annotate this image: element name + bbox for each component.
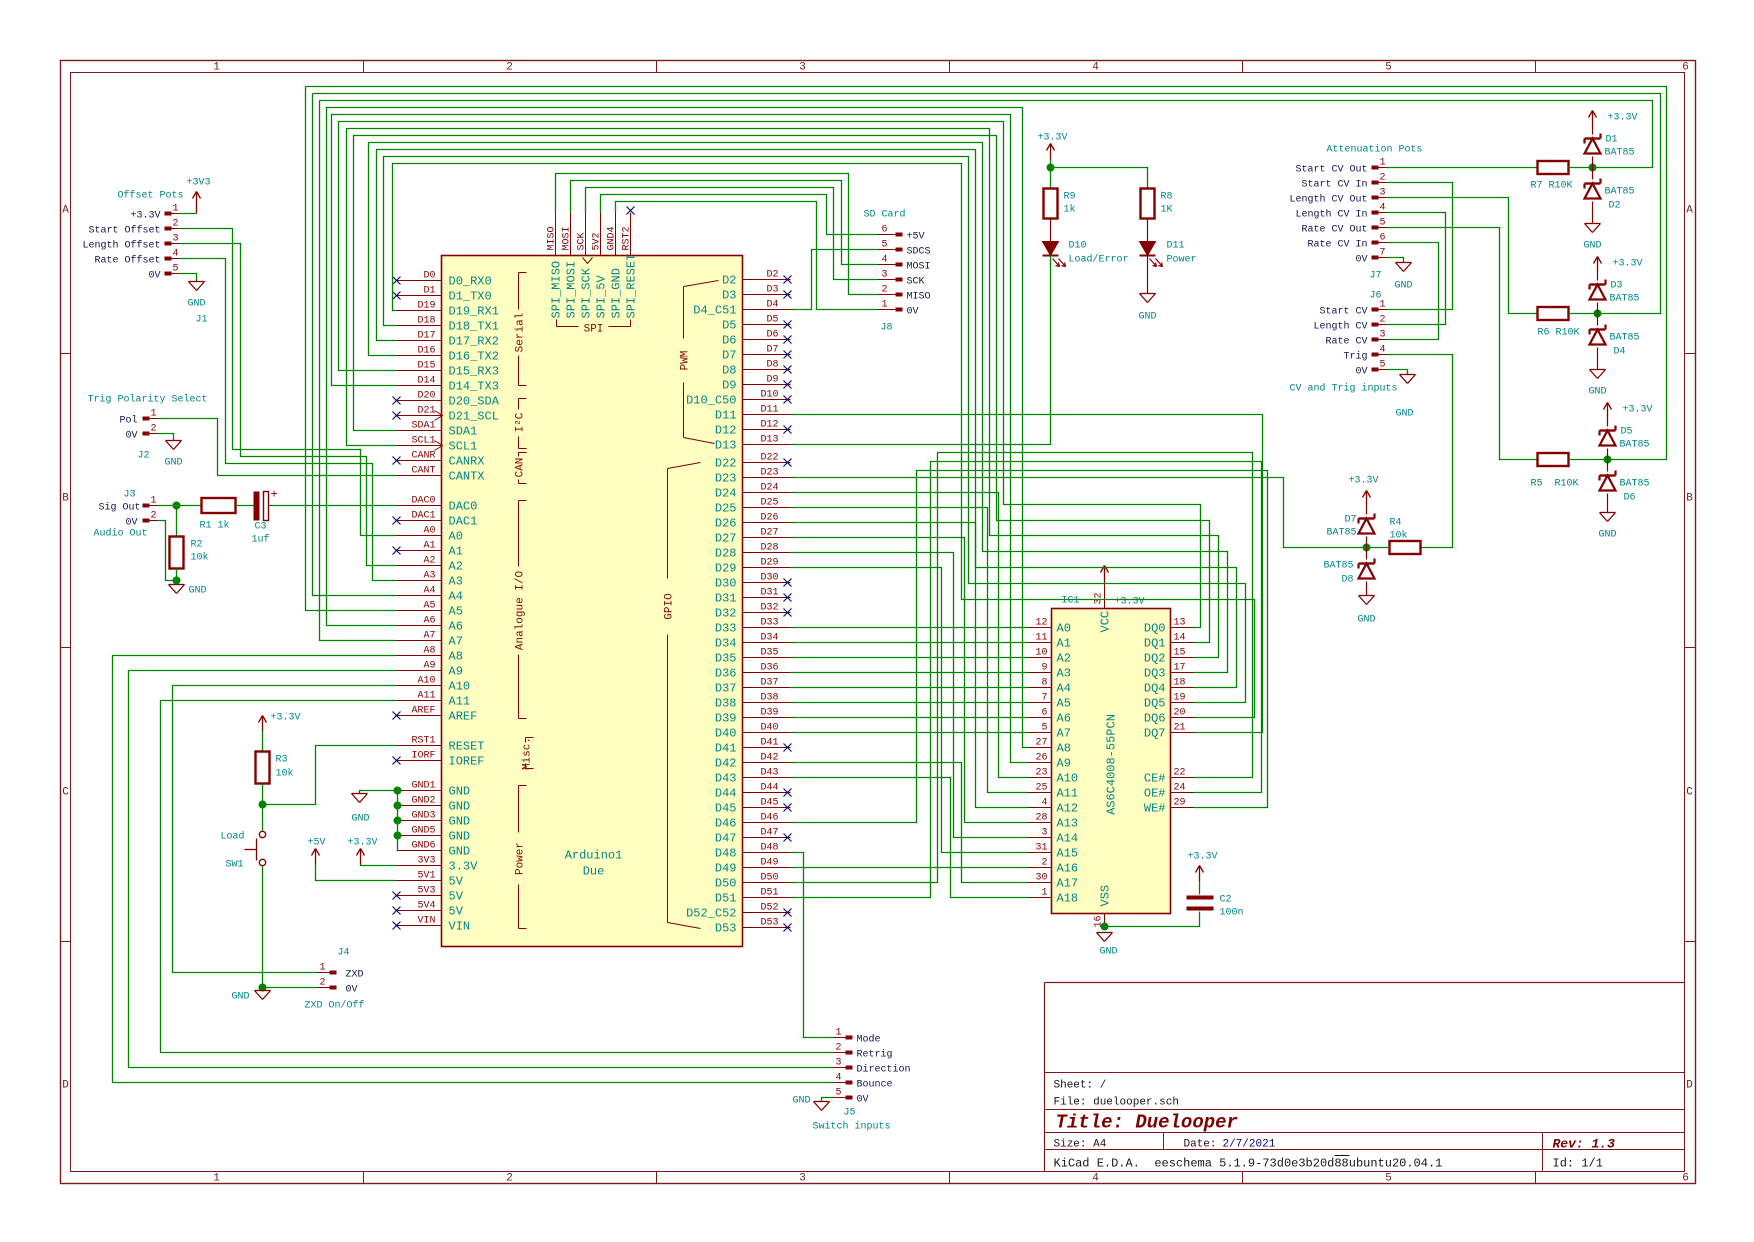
Due right pin D7	[743, 354, 791, 356]
svg-text:+3.3V: +3.3V	[1608, 113, 1638, 124]
J5 pin 2 Retrig	[846, 1051, 853, 1055]
svg-text:D18: D18	[417, 316, 435, 327]
junction at IC1 VSS	[1101, 923, 1109, 931]
IC1 pin VCC	[1104, 581, 1106, 609]
svg-text:SDA1: SDA1	[449, 425, 478, 439]
wire J8 SCK to SPI_SCK	[586, 188, 878, 280]
wire SW1 to GND junction	[262, 867, 264, 991]
svg-text:0V: 0V	[148, 271, 160, 282]
IC1 pin A9	[1029, 762, 1052, 764]
svg-text:3: 3	[799, 62, 806, 74]
svg-text:GND: GND	[231, 992, 249, 1003]
svg-text:D36: D36	[715, 667, 737, 681]
wire J7 Start CV Out to R7	[1387, 167, 1538, 169]
LED D10 Load/Error	[1043, 242, 1059, 256]
resistor R4 10k	[1390, 541, 1421, 554]
svg-text:2: 2	[506, 1173, 513, 1185]
wire D10 to D13	[791, 256, 1051, 445]
svg-text:A: A	[1686, 205, 1693, 217]
svg-text:A7: A7	[1057, 727, 1071, 741]
svg-text:D27: D27	[760, 528, 778, 539]
svg-text:24: 24	[1174, 783, 1186, 794]
Due right pin D5	[743, 324, 791, 326]
Due left pin D21	[397, 415, 442, 417]
wire D34 to SRAM A1	[791, 642, 1029, 644]
Due right pin D40	[743, 732, 791, 734]
svg-text:2: 2	[172, 219, 178, 230]
svg-text:D2: D2	[1609, 201, 1621, 212]
svg-text:Sheet: /: Sheet: /	[1054, 1080, 1107, 1092]
svg-text:D20_SDA: D20_SDA	[449, 395, 500, 409]
svg-text:A6: A6	[423, 616, 435, 627]
svg-text:0V: 0V	[1355, 367, 1367, 378]
svg-text:A17: A17	[1057, 877, 1079, 891]
Due left pin CANT	[397, 475, 442, 477]
svg-text:D42: D42	[760, 753, 778, 764]
svg-text:MOSI: MOSI	[562, 226, 573, 250]
svg-text:GND2: GND2	[411, 796, 435, 807]
svg-text:A10: A10	[1057, 772, 1079, 786]
svg-text:1: 1	[213, 62, 220, 74]
junction GND pin	[394, 802, 402, 810]
svg-text:ZXD On/Off: ZXD On/Off	[305, 1000, 365, 1012]
Due right pin D28	[743, 552, 791, 554]
svg-text:Rev: 1.3: Rev: 1.3	[1553, 1137, 1616, 1152]
svg-text:GND: GND	[449, 845, 471, 859]
svg-text:7: 7	[1379, 248, 1385, 259]
svg-text:23: 23	[1035, 768, 1047, 779]
svg-text:A3: A3	[1057, 667, 1071, 681]
svg-text:D44: D44	[715, 787, 737, 801]
svg-text:5V: 5V	[449, 875, 464, 889]
svg-text:A8: A8	[449, 650, 463, 664]
svg-text:+3.3V: +3.3V	[1349, 476, 1379, 487]
svg-text:DAC1: DAC1	[449, 515, 478, 529]
svg-text:R8: R8	[1161, 192, 1173, 203]
Due right pin D50	[743, 882, 791, 884]
Due left pin D18	[397, 325, 442, 327]
Due left pin DAC1	[397, 520, 442, 522]
svg-text:A9: A9	[449, 665, 463, 679]
svg-text:D5: D5	[1621, 427, 1633, 438]
svg-text:12: 12	[1035, 618, 1047, 629]
svg-text:D18_TX1: D18_TX1	[449, 320, 499, 334]
title block	[1045, 982, 1685, 984]
J1 pin 3 Length Offset	[165, 242, 172, 246]
svg-text:SCL1: SCL1	[449, 440, 478, 454]
svg-text:R1 1k: R1 1k	[200, 520, 230, 532]
Due left pin 3V3	[397, 865, 442, 867]
power +5V to Due 5V1	[315, 849, 317, 865]
wire D33 to SRAM A0	[791, 627, 1029, 629]
svg-text:D23: D23	[760, 468, 778, 479]
Due right pin D42	[743, 762, 791, 764]
svg-text:VIN: VIN	[417, 916, 435, 927]
junction at R9 top	[1047, 164, 1055, 172]
svg-text:21: 21	[1174, 723, 1186, 734]
svg-text:D21_SCL: D21_SCL	[449, 410, 499, 424]
wire R7 to clamp junction and bus	[320, 101, 1653, 168]
wire J5 Mode to D48	[791, 853, 834, 1038]
svg-text:A5: A5	[449, 605, 463, 619]
svg-text:D38: D38	[715, 697, 737, 711]
wire bus A5 branch	[306, 87, 397, 611]
junction D5/D6	[1604, 456, 1612, 464]
power +3.3V at R9	[1050, 144, 1052, 160]
Due left pin A1	[397, 550, 442, 552]
ground at D4	[1597, 348, 1599, 370]
svg-text:C: C	[1686, 787, 1693, 799]
Due right pin D8	[743, 369, 791, 371]
wire bus SDA1 to DQ2	[354, 136, 1210, 643]
svg-text:0V: 0V	[907, 307, 919, 318]
svg-text:D21: D21	[417, 406, 435, 417]
J8 pin 5 SDCS	[896, 248, 903, 252]
svg-text:GND: GND	[1395, 409, 1413, 420]
wire J7 Rate CV Out to R5	[1387, 228, 1538, 460]
wire J5 Bounce to A8	[113, 656, 834, 1083]
Due right pin D31	[743, 597, 791, 599]
IC1 pin A17	[1029, 882, 1052, 884]
Due left pin D20	[397, 400, 442, 402]
svg-text:Analogue I/O: Analogue I/O	[515, 570, 527, 650]
Due left pin IORF	[397, 760, 442, 762]
Due right pin D24	[743, 492, 791, 494]
Due group bracket I2C	[518, 399, 520, 410]
svg-text:5: 5	[1385, 1173, 1392, 1185]
svg-text:GND5: GND5	[411, 826, 435, 837]
svg-text:2: 2	[150, 511, 156, 522]
svg-text:A7: A7	[449, 635, 463, 649]
svg-text:D20: D20	[417, 391, 435, 402]
IC1 pin A11	[1029, 792, 1052, 794]
wire J8 OV to SPI_GND	[616, 202, 878, 310]
svg-text:D46: D46	[715, 817, 737, 831]
svg-text:A9: A9	[1057, 757, 1071, 771]
svg-text:5V: 5V	[449, 890, 464, 904]
J5 pin 4 Bounce	[846, 1081, 853, 1085]
svg-text:D24: D24	[760, 483, 778, 494]
wire D51 to OE#	[791, 462, 1262, 898]
wire D43 to SRAM A18	[791, 778, 1029, 898]
wire R4 to junction	[1367, 547, 1390, 549]
power +3.3V at IC1 VCC	[1104, 581, 1106, 582]
wire D26 to SRAM A12	[791, 523, 1029, 808]
Due left pin A10	[397, 685, 442, 687]
svg-text:D4_C51: D4_C51	[693, 304, 736, 318]
svg-text:GPIO: GPIO	[664, 593, 676, 620]
svg-text:6: 6	[1682, 62, 1689, 74]
wire bus D15 to DQ1	[339, 122, 1201, 628]
svg-text:Load/Error: Load/Error	[1069, 254, 1129, 266]
Due right pin D27	[743, 537, 791, 539]
svg-text:Power: Power	[1167, 255, 1197, 266]
svg-text:+3.3V: +3.3V	[271, 713, 301, 724]
Due left pin A4	[397, 595, 442, 597]
svg-text:GND: GND	[449, 800, 471, 814]
ground at D8	[1366, 582, 1368, 596]
svg-text:GND: GND	[1583, 241, 1601, 252]
svg-text:Arduino1: Arduino1	[565, 849, 623, 863]
svg-text:+3.3V: +3.3V	[1038, 133, 1068, 144]
svg-text:D41: D41	[715, 742, 737, 756]
svg-text:BAT85: BAT85	[1326, 528, 1356, 539]
svg-text:A6: A6	[449, 620, 463, 634]
svg-text:3: 3	[881, 270, 887, 281]
svg-text:15: 15	[1174, 648, 1186, 659]
svg-text:A2: A2	[423, 556, 435, 567]
svg-text:28: 28	[1035, 813, 1047, 824]
svg-text:D10_C50: D10_C50	[686, 394, 736, 408]
svg-text:5: 5	[1379, 218, 1385, 229]
svg-text:25: 25	[1035, 783, 1047, 794]
svg-text:Trig Polarity Select: Trig Polarity Select	[88, 394, 208, 406]
svg-text:5: 5	[1379, 360, 1385, 371]
svg-text:Start CV: Start CV	[1319, 307, 1367, 318]
svg-text:D3: D3	[722, 289, 736, 303]
svg-text:D6: D6	[1624, 493, 1636, 504]
Due left pin A0	[397, 535, 442, 537]
svg-text:5: 5	[881, 240, 887, 251]
svg-text:SCK: SCK	[577, 232, 588, 250]
svg-text:DQ6: DQ6	[1144, 712, 1166, 726]
svg-text:D47: D47	[715, 832, 737, 846]
Due top pin 5V2	[600, 213, 602, 256]
svg-text:Start Offset: Start Offset	[88, 225, 160, 237]
svg-text:D49: D49	[760, 858, 778, 869]
Due left pin A11	[397, 700, 442, 702]
svg-text:D51: D51	[760, 888, 778, 899]
wire bus D19 to DQ7	[393, 164, 1255, 718]
svg-text:VSS: VSS	[1099, 885, 1113, 907]
svg-text:2: 2	[150, 424, 156, 435]
J6 pin 1 Start CV	[1372, 308, 1379, 312]
IC1 pin DQ4	[1171, 687, 1194, 689]
svg-text:D26: D26	[760, 513, 778, 524]
svg-text:Power: Power	[515, 842, 527, 875]
svg-text:A4: A4	[423, 586, 435, 597]
svg-text:5V3: 5V3	[417, 886, 435, 897]
svg-text:SPI_MISO: SPI_MISO	[550, 261, 564, 319]
svg-text:D7: D7	[766, 345, 778, 356]
svg-text:Start CV Out: Start CV Out	[1295, 165, 1367, 176]
svg-text:+3.3V: +3.3V	[1623, 405, 1653, 416]
IC1 pin DQ3	[1171, 672, 1194, 674]
J1 pin 2 Start Offset	[165, 227, 172, 231]
J8 pin 1 0V	[896, 308, 903, 312]
wire D39 to SRAM A6	[791, 717, 1029, 719]
svg-text:7: 7	[1041, 693, 1047, 704]
svg-text:SPI: SPI	[584, 324, 604, 336]
Due group bracket Power	[518, 786, 520, 833]
svg-text:CANR: CANR	[411, 451, 435, 462]
svg-text:D51: D51	[715, 892, 737, 906]
Due group bracket GPIO	[667, 469, 669, 579]
Due right pin D48	[743, 852, 791, 854]
svg-text:Audio Out: Audio Out	[94, 528, 148, 540]
svg-text:17: 17	[1174, 663, 1186, 674]
svg-text:D33: D33	[715, 622, 737, 636]
svg-text:A14: A14	[1057, 832, 1079, 846]
svg-text:1: 1	[319, 963, 325, 974]
svg-text:A11: A11	[1057, 787, 1079, 801]
IC U1 Arduino1 Due module	[442, 256, 743, 947]
Due left pin A3	[397, 580, 442, 582]
svg-text:SDA1: SDA1	[411, 421, 435, 432]
svg-text:D3: D3	[766, 285, 778, 296]
svg-text:D29: D29	[760, 558, 778, 569]
svg-text:9: 9	[1041, 663, 1047, 674]
svg-text:Size: A4: Size: A4	[1054, 1139, 1107, 1151]
svg-text:Load: Load	[220, 831, 244, 843]
svg-text:10k: 10k	[191, 552, 209, 564]
Due right pin D30	[743, 582, 791, 584]
wire J5 Retrig to A11	[161, 701, 834, 1053]
svg-text:3.3V: 3.3V	[449, 860, 479, 874]
svg-text:A15: A15	[1057, 847, 1079, 861]
Due right pin D44	[743, 792, 791, 794]
svg-text:A13: A13	[1057, 817, 1079, 831]
svg-text:D40: D40	[760, 723, 778, 734]
svg-text:D: D	[1686, 1080, 1693, 1092]
svg-text:Misc.: Misc.	[522, 737, 534, 770]
svg-text:A7: A7	[423, 631, 435, 642]
svg-text:Id: 1/1: Id: 1/1	[1553, 1157, 1603, 1171]
svg-text:CANRX: CANRX	[449, 455, 485, 469]
IC1 pin A2	[1029, 657, 1052, 659]
IC1 pin CE#	[1171, 777, 1194, 779]
svg-text:R3: R3	[276, 755, 288, 766]
Due right pin D37	[743, 687, 791, 689]
svg-text:19: 19	[1174, 693, 1186, 704]
svg-text:BAT85: BAT85	[1605, 187, 1635, 198]
J5 pin 1 Mode	[846, 1036, 853, 1040]
svg-text:D9: D9	[766, 375, 778, 386]
svg-text:0V: 0V	[125, 431, 137, 442]
svg-text:30: 30	[1035, 873, 1047, 884]
svg-text:+5V: +5V	[907, 232, 925, 243]
IC1 pin DQ5	[1171, 702, 1194, 704]
svg-text:Length CV: Length CV	[1313, 321, 1367, 333]
svg-text:MISO: MISO	[907, 292, 931, 303]
svg-text:MISO: MISO	[547, 226, 558, 250]
J8 pin 3 SCK	[896, 278, 903, 282]
J6 pin 3 Rate CV	[1372, 338, 1379, 342]
svg-text:B: B	[62, 493, 69, 505]
wire J1 pin4 Rate Offset to A3	[180, 259, 397, 581]
wire D40 to SRAM A7	[791, 732, 1029, 734]
IC1 pin DQ0	[1171, 627, 1194, 629]
Due group bracket SPI	[557, 326, 579, 328]
svg-text:18: 18	[1174, 678, 1186, 689]
Due right pin D53	[743, 927, 791, 929]
svg-text:A10: A10	[449, 680, 471, 694]
svg-text:PWM: PWM	[680, 351, 692, 371]
svg-text:4: 4	[1092, 62, 1099, 74]
svg-text:5V2: 5V2	[592, 232, 603, 250]
svg-text:10: 10	[1035, 648, 1047, 659]
svg-text:DQ4: DQ4	[1144, 682, 1166, 696]
svg-text:6: 6	[1041, 708, 1047, 719]
Due top pin GND4	[615, 213, 617, 256]
svg-text:Due: Due	[583, 865, 605, 879]
svg-text:A3: A3	[449, 575, 463, 589]
svg-text:3: 3	[172, 234, 178, 245]
svg-text:B: B	[1686, 493, 1693, 505]
svg-text:D42: D42	[715, 757, 737, 771]
svg-text:22: 22	[1174, 768, 1186, 779]
svg-text:VCC: VCC	[1099, 611, 1113, 633]
wire R3 to SW1 and RESET	[262, 784, 264, 831]
Due left pin GND6	[397, 850, 442, 852]
junction at SW1 bottom / J4	[259, 984, 267, 992]
svg-text:AREF: AREF	[449, 710, 478, 724]
ground at D2	[1592, 202, 1594, 224]
wire R4 junction to D23	[791, 478, 1367, 548]
svg-text:BAT85: BAT85	[1620, 479, 1650, 490]
svg-text:R6 R10K: R6 R10K	[1538, 328, 1580, 339]
svg-text:D4: D4	[766, 300, 778, 311]
svg-text:A6: A6	[1057, 712, 1071, 726]
svg-text:29: 29	[1174, 798, 1186, 809]
Due left pin D15	[397, 370, 442, 372]
svg-text:D35: D35	[715, 652, 737, 666]
svg-text:D43: D43	[760, 768, 778, 779]
Due left pin A6	[397, 625, 442, 627]
svg-text:3: 3	[799, 1173, 806, 1185]
Due left pin D17	[397, 340, 442, 342]
svg-text:D37: D37	[760, 678, 778, 689]
J1 pin 5 0V	[165, 272, 172, 276]
IC1 pin A10	[1029, 777, 1052, 779]
Due right pin D41	[743, 747, 791, 749]
svg-text:DAC0: DAC0	[411, 496, 435, 507]
svg-text:MOSI: MOSI	[907, 262, 931, 273]
svg-text:Mode: Mode	[857, 1034, 881, 1046]
svg-text:IC1: IC1	[1061, 596, 1079, 607]
svg-text:13: 13	[1174, 618, 1186, 629]
Due right pin D49	[743, 867, 791, 869]
svg-text:D25: D25	[760, 498, 778, 509]
diode D7 BAT85	[1366, 537, 1368, 548]
svg-text:A4: A4	[1057, 682, 1071, 696]
svg-text:WE#: WE#	[1144, 802, 1166, 816]
svg-text:2: 2	[506, 62, 513, 74]
svg-text:A4: A4	[449, 590, 463, 604]
svg-text:5: 5	[835, 1088, 841, 1099]
Due right pin D4	[743, 309, 791, 311]
svg-text:14: 14	[1174, 633, 1186, 644]
Due right pin D6	[743, 339, 791, 341]
svg-text:D8: D8	[722, 364, 736, 378]
svg-text:Switch inputs: Switch inputs	[813, 1121, 891, 1133]
svg-text:6: 6	[881, 225, 887, 236]
svg-text:Rate CV Out: Rate CV Out	[1301, 225, 1367, 236]
svg-text:D52: D52	[760, 903, 778, 914]
svg-text:Title: Duelooper: Title: Duelooper	[1056, 1112, 1239, 1134]
Due left pin CANR	[397, 460, 442, 462]
wire D27 to SRAM A13	[791, 538, 1029, 823]
wire J7 Length CV In to J6 Length CV	[1387, 213, 1446, 325]
svg-text:D50: D50	[760, 873, 778, 884]
svg-text:D13: D13	[760, 435, 778, 446]
svg-text:A8: A8	[423, 646, 435, 657]
svg-text:SPI_5V: SPI_5V	[595, 274, 609, 318]
svg-text:3V3: 3V3	[417, 856, 435, 867]
svg-text:CANTX: CANTX	[449, 470, 485, 484]
svg-text:D1: D1	[1606, 135, 1618, 146]
svg-text:A11: A11	[449, 695, 471, 709]
